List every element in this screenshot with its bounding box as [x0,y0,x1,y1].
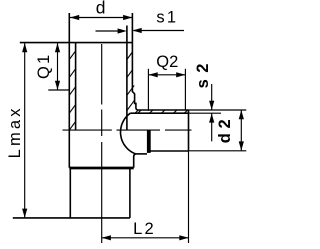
left inner wall [75,43,77,131]
branch body bottom outline [136,153,148,155]
svg-text:Q2: Q2 [156,53,178,71]
arrowheads d2 [239,110,244,119]
svg-text:s1: s1 [156,9,178,27]
svg-text:Q1: Q1 [35,53,53,79]
Q2 left extension [147,69,149,111]
arrowheads Q2 [149,72,158,77]
arrowhead s1 helper [118,28,127,33]
bottom spigot left wall [69,168,71,218]
svg-text:d2: d2 [216,115,234,144]
svg-text:s2: s2 [194,57,212,88]
arrowheads L2 [102,235,111,240]
Q2 right extension [184,69,186,110]
d2 dimension line [240,110,242,150]
s2 upper arrow line [211,84,213,110]
bottom face [13,217,130,219]
bottom spigot right wall [129,168,131,218]
s1 helper arrow line [96,30,119,32]
dimension d line [70,17,132,19]
branch end face [188,110,190,151]
hatch right wall [127,52,132,60]
s2 lower arrow tail [211,113,213,141]
svg-text:d: d [96,0,106,18]
bore intersection arc [121,113,136,154]
branch bottom extension right [189,150,247,152]
L2 right extension [188,151,190,243]
Lmax dimension line [24,43,26,218]
arrowheads Q1 [55,43,60,52]
svg-text:Lmax: Lmax [6,105,24,158]
hatch branch wall [135,110,138,113]
run wall below branch [134,154,136,168]
bold step edge at bottom of body [69,167,133,170]
arrowheads Lmax [22,43,27,52]
vertical centerline [101,44,103,243]
svg-text:L2: L2 [133,220,156,238]
Q1 dimension line [57,43,59,90]
branch spigot bottom outline [151,150,189,152]
branch outer extension right [189,109,247,111]
branch inner extension right [189,112,222,114]
arrowheads d [70,15,79,20]
arrowhead s1 [133,28,142,33]
L2 dimension line [102,237,189,239]
Q1 bottom tick [48,89,69,91]
branch centerline [63,129,192,131]
top face of vertical spigot [20,42,133,44]
left outer wall (with d extension above) [68,13,70,168]
s1 arrow line [134,30,185,32]
arrowheads s2 [209,101,214,110]
right outer wall with steps into branch [132,13,188,110]
bold step collar on branch [147,130,151,153]
hatch left wall [69,51,75,60]
branch inner top surface [130,112,188,114]
Q2 dimension line [149,74,186,76]
right inner wall (with s1 extension above) [126,26,128,131]
